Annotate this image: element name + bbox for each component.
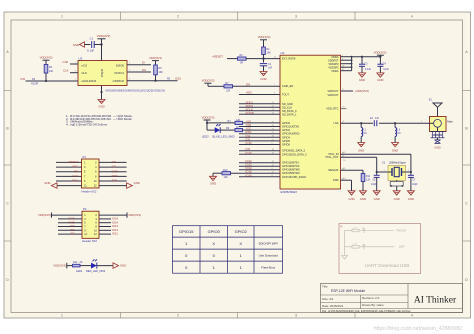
resistor R10 12K pull-down: [222, 169, 231, 179]
wire SD bus row 2 + net label SDD3: [239, 104, 280, 108]
svg-text:UART Download USB: UART Download USB: [365, 263, 410, 268]
svg-text:GPIO15/MTDO: GPIO15/MTDO: [282, 171, 300, 175]
svg-text:R10: R10: [223, 169, 228, 172]
power port VDD(3V3) for CHIP_EN: [202, 78, 215, 86]
wire SD bus row 4 + net label SCMD: [239, 111, 280, 115]
svg-text:E1: E1: [429, 98, 433, 102]
power port VDD(3V3) above R4: [40, 56, 53, 65]
resistor R6 10K pull-up: [154, 65, 163, 75]
wire SD bus row 1 + net label SDD2: [239, 100, 280, 104]
wire VDD node to R4: [207, 122, 235, 124]
crystal case ground pads: [390, 180, 403, 191]
svg-text:10K: 10K: [49, 70, 54, 73]
resistor R4: [228, 119, 243, 125]
capacitor C1 0.1uF: [87, 37, 94, 53]
wire VDD node to U3 VCC pin: [101, 45, 103, 61]
resistor R12 2K: [73, 261, 83, 267]
svg-text:0.1uF: 0.1uF: [365, 68, 372, 71]
svg-text:DO/IO1: DO/IO1: [115, 71, 125, 75]
notes text: [66, 114, 133, 126]
svg-text:Title: Title: [322, 285, 328, 289]
svg-text:CLK: CLK: [73, 174, 79, 178]
svg-text:EN: EN: [74, 169, 78, 173]
power ground GND for R10: [210, 173, 217, 185]
svg-text:GPIO13/MTCK: GPIO13/MTCK: [282, 164, 300, 168]
svg-text:4: 4: [411, 314, 413, 318]
svg-text:U3: U3: [79, 56, 83, 60]
svg-text:GND: GND: [377, 78, 383, 82]
power port VDD(3V3) for LED2: [202, 115, 215, 130]
svg-text:GPIO3/U0RXD: GPIO3/U0RXD: [282, 132, 300, 136]
svg-text:IO16: IO16: [246, 141, 253, 145]
svg-text:GPIO0: GPIO0: [282, 121, 290, 125]
svg-text:R12: R12: [73, 261, 78, 264]
wire P2 right pin 8 + net label: [99, 224, 119, 228]
node junction C1/VDD: [100, 43, 102, 45]
pin 6 CLK wire + net label CLK: [63, 69, 78, 73]
svg-text:GPIO14/MTMS: GPIO14/MTMS: [282, 168, 300, 172]
svg-text:VDD(3V3): VDD(3V3): [128, 213, 141, 217]
wire P1 left pin 5 + net label: [56, 169, 82, 173]
U2 left pin names: [282, 57, 307, 179]
svg-text:GPIO2: GPIO2: [282, 128, 290, 132]
svg-text:SD_CLK: SD_CLK: [282, 105, 292, 109]
wire P1 left pin 3 + net label: [56, 165, 82, 169]
svg-text:GND: GND: [348, 197, 354, 201]
wire P2 right pin 6 + net label: [99, 220, 119, 224]
svg-text:X: X: [212, 241, 215, 246]
wire P2 left pin 3 + net label: [58, 217, 82, 221]
wire P1 left pin 1 + net label: [56, 160, 82, 164]
wire GPIO row + net label IO5: [239, 137, 280, 141]
svg-text:+RESET: +RESET: [67, 160, 78, 164]
svg-text:P1: P1: [83, 155, 87, 159]
wire P2 left pin 7 + net label: [58, 224, 82, 228]
svg-text:VDDA: VDDA: [331, 55, 338, 59]
wire U2 GND pin: [341, 178, 352, 191]
svg-text:nHOLD/IO3: nHOLD/IO3: [82, 79, 97, 83]
svg-text:12K: 12K: [366, 179, 371, 182]
svg-text:ADC: ADC: [246, 91, 252, 95]
svg-text:EXT_RSTB: EXT_RSTB: [282, 57, 296, 61]
resistor R9 1K: [226, 126, 243, 132]
power ground GND (top-left): [73, 42, 85, 47]
svg-text:GPIO10/SD_DATA_3: GPIO10/SD_DATA_3: [282, 152, 307, 156]
svg-text:SD_DATA_0: SD_DATA_0: [282, 109, 297, 113]
svg-text:IO14: IO14: [72, 179, 79, 183]
svg-text:Reset: Reset: [397, 229, 406, 233]
power ground GND below C2: [260, 72, 267, 81]
svg-text:IO10: IO10: [175, 77, 182, 81]
wire P1 pin 11 to GND: [57, 185, 82, 187]
svg-text:CS0: CS0: [63, 60, 69, 64]
svg-text:ESP8266EX: ESP8266EX: [281, 190, 298, 194]
pin 2 DO wire + net label DO: [127, 68, 151, 72]
power ground GND right of P1: [127, 181, 140, 188]
svg-text:GPIO15: GPIO15: [179, 229, 194, 234]
svg-text:U2: U2: [281, 51, 285, 55]
svg-text:EN: EN: [246, 83, 250, 87]
svg-text:GND: GND: [210, 182, 216, 186]
svg-text:12K: 12K: [226, 89, 231, 92]
wire P1 right pin 4 + net label: [99, 165, 127, 169]
capacitor C4 10uF: [377, 56, 389, 73]
wire nHOLD net (long, to IO9 label): [20, 77, 78, 86]
svg-text:NC/0R: NC/0R: [31, 83, 38, 86]
svg-text:LED2: LED2: [202, 134, 209, 138]
resistor R11 12K: [361, 174, 371, 191]
svg-text:GPIO16/XPD_DCDC: GPIO16/XPD_DCDC: [282, 175, 306, 179]
svg-text:VDDOUT: VDDOUT: [328, 93, 339, 97]
power ground GND below antenna: [434, 138, 440, 150]
svg-text:1nF: 1nF: [268, 67, 273, 70]
svg-text:GND: GND: [434, 145, 440, 149]
wire P2 right pin 4 + net label: [99, 217, 119, 221]
node junction L3: [394, 122, 396, 124]
svg-text:SD_DATA_1: SD_DATA_1: [282, 112, 297, 116]
svg-text:GPIO4: GPIO4: [282, 135, 290, 139]
wire R9 to GPIO2: [243, 129, 281, 131]
svg-text:IO2: IO2: [70, 232, 75, 236]
svg-text:XTAL_OUT: XTAL_OUT: [325, 155, 339, 159]
svg-text:VDD(3V3): VDD(3V3): [38, 213, 51, 217]
svg-text:nCS: nCS: [82, 63, 88, 67]
UART download USB block (greyed): [339, 224, 421, 274]
svg-text:VDD(3V3): VDD(3V3): [40, 56, 53, 60]
svg-text:VDD(3V3): VDD(3V3): [53, 264, 66, 268]
node junction L1: [360, 122, 362, 124]
wire GPIO1x row + net label IO12: [239, 159, 280, 163]
wire P1 right pin 6 + net label: [99, 169, 127, 173]
chip U3 SPI flash 25Q32: [78, 56, 127, 85]
capacitor C9 series (LNA): [370, 117, 380, 126]
svg-text:DI: DI: [142, 61, 145, 65]
power ground GND row (X1): [393, 191, 400, 201]
wire VDD rail to caps: [352, 56, 381, 58]
wire R4 to nHOLD net + junction: [45, 73, 47, 82]
svg-text:X1: X1: [382, 161, 386, 165]
svg-text:2K: 2K: [80, 261, 83, 264]
svg-text:R11: R11: [366, 175, 371, 178]
svg-text:10pF: 10pF: [371, 183, 377, 186]
wire P2 left pin 11 + net label: [58, 232, 82, 236]
svg-text:4: 4: [411, 15, 413, 19]
boot mode table: [173, 226, 283, 274]
svg-text:VDDA: VDDA: [331, 69, 338, 73]
svg-text:GPIO9/SD_DATA_2: GPIO9/SD_DATA_2: [282, 149, 306, 153]
U2 right pin names: [325, 55, 339, 182]
svg-text:IO16: IO16: [246, 173, 253, 177]
svg-text:12K: 12K: [236, 119, 241, 122]
svg-text:VDD(3V3): VDD(3V3): [97, 34, 111, 38]
wire C1 to VDD node: [94, 44, 101, 46]
power ground GND row (C6): [407, 191, 414, 201]
svg-text:SCMD: SCMD: [246, 111, 254, 115]
wire LED2 anode: [207, 129, 215, 131]
power port VDD(3V3) above R1: [258, 35, 271, 47]
net label IO2: [246, 127, 274, 131]
svg-text:+VDD(3V3): +VDD(3V3): [355, 89, 369, 93]
wire GPIO row + net label RXD: [239, 130, 280, 134]
svg-text:Header 6X2: Header 6X2: [82, 239, 97, 243]
svg-text:GND: GND: [394, 197, 400, 201]
wire GND to C1: [85, 44, 91, 46]
svg-text:10K: 10K: [159, 71, 164, 74]
node junction below U3: [100, 91, 102, 93]
antenna E1: [421, 98, 453, 132]
svg-text:CLK: CLK: [63, 69, 69, 73]
svg-text:ADC: ADC: [72, 165, 78, 169]
svg-text:Uart Download: Uart Download: [259, 253, 279, 257]
wire R4 to GPIO0: [243, 122, 281, 124]
svg-text:GND: GND: [260, 77, 266, 81]
wire GPIO9/10 row + net label IO10: [239, 151, 280, 155]
svg-text:0.1uF: 0.1uF: [87, 48, 94, 52]
wire R7 to CHIP_EN + net label EN: [233, 83, 281, 87]
svg-text:GND: GND: [98, 105, 104, 109]
svg-text:GND: GND: [73, 43, 79, 47]
svg-text:P2: P2: [83, 207, 87, 211]
svg-text:IO2: IO2: [112, 165, 117, 169]
wire GPIO row + net label IO4: [239, 134, 280, 138]
svg-text:LED1: LED1: [76, 269, 83, 273]
wire XTAL_OUT net: [341, 157, 388, 172]
node junction C5: [376, 171, 378, 173]
wire GPIO9/10 row + net label IO9: [239, 147, 280, 151]
svg-text:Revision: 2.0: Revision: 2.0: [362, 296, 380, 300]
svg-text:Size: A4: Size: A4: [322, 297, 333, 301]
svg-text:Header 6X2: Header 6X2: [82, 189, 97, 193]
wire P2 right pin 12 + net label: [99, 232, 118, 236]
wire R12 to LED1: [81, 265, 92, 267]
svg-text:nWP/IO2: nWP/IO2: [113, 79, 125, 83]
svg-text:2: 2: [177, 314, 179, 318]
power ground GND row (U2 GND): [348, 191, 355, 201]
svg-text:Main: Main: [447, 119, 453, 123]
svg-text:12K: 12K: [224, 176, 229, 179]
svg-text:GPIO2: GPIO2: [235, 229, 248, 234]
svg-text:VDD(3V3): VDD(3V3): [374, 50, 387, 54]
svg-text:GPIO5: GPIO5: [282, 139, 290, 143]
inductor L1 NC: [361, 123, 367, 142]
svg-text:RES12K: RES12K: [329, 168, 339, 172]
svg-text:TOUT: TOUT: [282, 93, 289, 97]
svg-text:CLK: CLK: [82, 71, 88, 75]
svg-text:4.7K: 4.7K: [353, 244, 358, 246]
power ground GND below C4: [377, 73, 384, 82]
power ground GND below U3: [98, 100, 105, 109]
svg-text:VDD(3V3): VDD(3V3): [202, 115, 215, 119]
svg-text:GND: GND: [44, 181, 50, 185]
resistor R4 10K pull-up: [44, 65, 53, 74]
svg-text:VDD(3V3): VDD(3V3): [149, 56, 162, 60]
svg-text:26MHz/10ppm: 26MHz/10ppm: [389, 161, 406, 165]
power port VDD(3V3) left of P2: [38, 213, 82, 218]
svg-text:IO15: IO15: [112, 169, 119, 173]
wire R1 to reset node + junction: [262, 55, 264, 63]
power ground GND below L3: [392, 143, 399, 153]
svg-text:RED_LED_0603: RED_LED_0603: [86, 269, 106, 273]
wire VDDA bus stubs: [341, 57, 352, 71]
svg-text:https://blog.csdn.net/weixin_4: https://blog.csdn.net/weixin_42880082: [374, 326, 462, 332]
svg-text:10pF: 10pF: [412, 183, 418, 186]
svg-text:GND: GND: [360, 197, 366, 201]
svg-text:ISP: ISP: [399, 245, 405, 249]
capacitor C7: [408, 172, 418, 191]
wire GPIO row + net label TXD: [239, 123, 280, 127]
wire RES12K to R11: [341, 168, 364, 173]
wire GPIO1x row + net label IO16: [239, 173, 280, 177]
wire P2 left pin 5 + net label: [58, 220, 82, 224]
svg-text:MOSI/SIO(MISO)/MISO(IO1)/IO2(I: MOSI/SIO(MISO)/MISO(IO1)/IO2(IO2)/IO3(IO…: [106, 88, 165, 92]
resistor R2 0R: [238, 54, 247, 64]
LED2 blue: [202, 124, 235, 138]
wire LED2 to R9: [220, 129, 235, 131]
svg-text:GND: GND: [120, 264, 126, 268]
svg-text:GND: GND: [333, 178, 339, 182]
svg-text:SDIO/SPI WIFI: SDIO/SPI WIFI: [258, 241, 278, 245]
svg-text:GPIO6: GPIO6: [282, 143, 290, 147]
svg-text:RXD: RXD: [112, 174, 118, 178]
wire P1 right pin 8 + net label: [99, 174, 127, 178]
resistor R1 10K: [262, 47, 271, 55]
resistor R7 12K: [224, 82, 233, 92]
wire SD bus row 3 + net label SCLK: [239, 107, 280, 111]
wire nWP net (pin 3) with junction + net label IO10: [127, 75, 182, 82]
svg-text:GPIO12/MTDI: GPIO12/MTDI: [282, 161, 299, 165]
power ground GND row (C5): [373, 191, 380, 201]
wire LED1 to GND: [97, 265, 113, 267]
power port VDD(3V3) for LED1: [53, 263, 72, 269]
svg-text:25Q32: 25Q32: [100, 68, 104, 77]
power ground GND right of LED1: [113, 263, 126, 269]
svg-text:GPIO0: GPIO0: [208, 229, 221, 234]
wire TOUT + net label ADC: [239, 91, 280, 95]
power port VDD(3V3) above U3: [97, 34, 111, 44]
svg-text:VDD_RTC: VDD_RTC: [326, 107, 338, 111]
svg-text:CHIP_EN: CHIP_EN: [282, 84, 293, 88]
svg-text:DI/IO0: DI/IO0: [116, 63, 125, 67]
svg-text:VDD(3V3): VDD(3V3): [202, 78, 215, 82]
svg-text:GND: GND: [374, 197, 380, 201]
wire GPIO row + net label IO16: [239, 141, 280, 145]
svg-text:C1: C1: [90, 37, 94, 41]
pin 1 nCS wire + net label CS0: [63, 60, 78, 64]
wire U3 GND pin down: [101, 86, 103, 100]
svg-text:1: 1: [61, 314, 63, 318]
svg-text:Flash Boot: Flash Boot: [261, 265, 275, 269]
antenna pads: [431, 132, 445, 138]
svg-text:TXD: TXD: [112, 179, 118, 183]
svg-text:4.7K: 4.7K: [353, 227, 358, 229]
wire GPIO1x row + net label IO14: [239, 166, 280, 170]
svg-text:10uF: 10uF: [383, 68, 389, 71]
node junctions VDD bus: [351, 56, 353, 68]
svg-text:10K: 10K: [267, 52, 272, 55]
power ground GND left of P1: [44, 181, 57, 188]
wire VDD_RTC stub: [341, 107, 347, 109]
net label IO0: [246, 119, 274, 123]
svg-text:SD_GND: SD_GND: [282, 102, 293, 106]
svg-text:GND: GND: [359, 78, 365, 82]
svg-text:VDD(3V3): VDD(3V3): [258, 35, 271, 39]
svg-text:1nF: 1nF: [375, 117, 380, 120]
svg-text:1: 1: [61, 15, 63, 19]
svg-text:R: R: [341, 225, 343, 229]
svg-text:LNA: LNA: [333, 121, 338, 125]
capacitor C2: [260, 63, 273, 72]
crystal X1 26MHz: [382, 161, 410, 181]
inductor L3 NC: [395, 123, 401, 142]
wire VDD to R7: [208, 85, 224, 87]
node junction C6: [410, 171, 412, 173]
svg-text:+RESET: +RESET: [212, 55, 223, 59]
power port VDD(3V3) top right: [374, 50, 387, 56]
wire R2 to EXT_RSTB: [246, 58, 280, 60]
svg-text:IO9: IO9: [20, 77, 25, 81]
svg-text:Date: 2015/4/21: Date: 2015/4/21: [322, 304, 344, 308]
wire P1 right pin 10 + net label: [99, 179, 127, 183]
svg-text:Drawn By: Hans: Drawn By: Hans: [362, 303, 384, 307]
wire P2 left pin 9 + net label: [58, 228, 82, 232]
wire GND to R10: [213, 172, 222, 174]
wire P1 left pin 9 + net label: [56, 179, 82, 183]
svg-text:GPIO1/U0TXD: GPIO1/U0TXD: [282, 125, 299, 129]
wire P1 right pin 2 + net label: [99, 160, 127, 164]
LED1 red: [76, 259, 106, 273]
svg-text:IO10: IO10: [246, 151, 253, 155]
power port VDD(3V3) right of P2: [99, 213, 141, 218]
capacitor C5: [371, 172, 380, 191]
svg-text:3: 3: [295, 15, 297, 19]
U2 pin numbers right: [342, 55, 345, 181]
svg-text:NC: NC: [364, 132, 368, 135]
svg-text:GND: GND: [358, 149, 364, 153]
svg-text:NC: NC: [397, 132, 401, 135]
svg-text:BLUE_LED_0603: BLUE_LED_0603: [213, 134, 236, 138]
svg-text:ESP-12E WIFI Module: ESP-12E WIFI Module: [331, 289, 365, 293]
op chip U2 ESP8266EX: [280, 51, 341, 194]
svg-text:VDD3P3: VDD3P3: [328, 62, 339, 66]
power ground GND below L1: [358, 143, 365, 153]
svg-text:VDDOUT: VDDOUT: [328, 89, 339, 93]
power ground GND below C3: [358, 73, 365, 82]
wire XTAL_IN net: [341, 152, 411, 172]
connector P2 Header 6X2: [82, 207, 99, 243]
svg-text:2: 2: [177, 15, 179, 19]
title block: [321, 284, 463, 313]
svg-text:0R: 0R: [240, 62, 243, 65]
svg-text:AI Thinker: AI Thinker: [414, 296, 457, 306]
power port VDD(3V3) above R6: [149, 56, 162, 65]
wire P1 left pin 7 + net label: [56, 174, 82, 178]
connector P1 Header 6X2: [82, 155, 100, 194]
capacitor C3 0.1uF: [359, 56, 372, 73]
wire GPIO1x row + net label IO13: [239, 163, 280, 167]
svg-text:GND: GND: [134, 181, 140, 185]
svg-text:GND: GND: [408, 197, 414, 201]
pin 5 DI wire + net label DI: [127, 61, 151, 65]
svg-text:IO11: IO11: [112, 232, 118, 236]
svg-text:VDDPST: VDDPST: [328, 58, 339, 62]
svg-text:X: X: [239, 241, 242, 246]
svg-text:3: 3: [295, 314, 297, 318]
wire P1 pin 12 to GND: [99, 185, 127, 187]
wire P2 right pin 10 + net label: [99, 228, 119, 232]
wire R10 to GPIO15 + net label IO15: [231, 170, 281, 174]
svg-text:GND: GND: [392, 149, 398, 153]
svg-text:1K: 1K: [236, 126, 239, 129]
